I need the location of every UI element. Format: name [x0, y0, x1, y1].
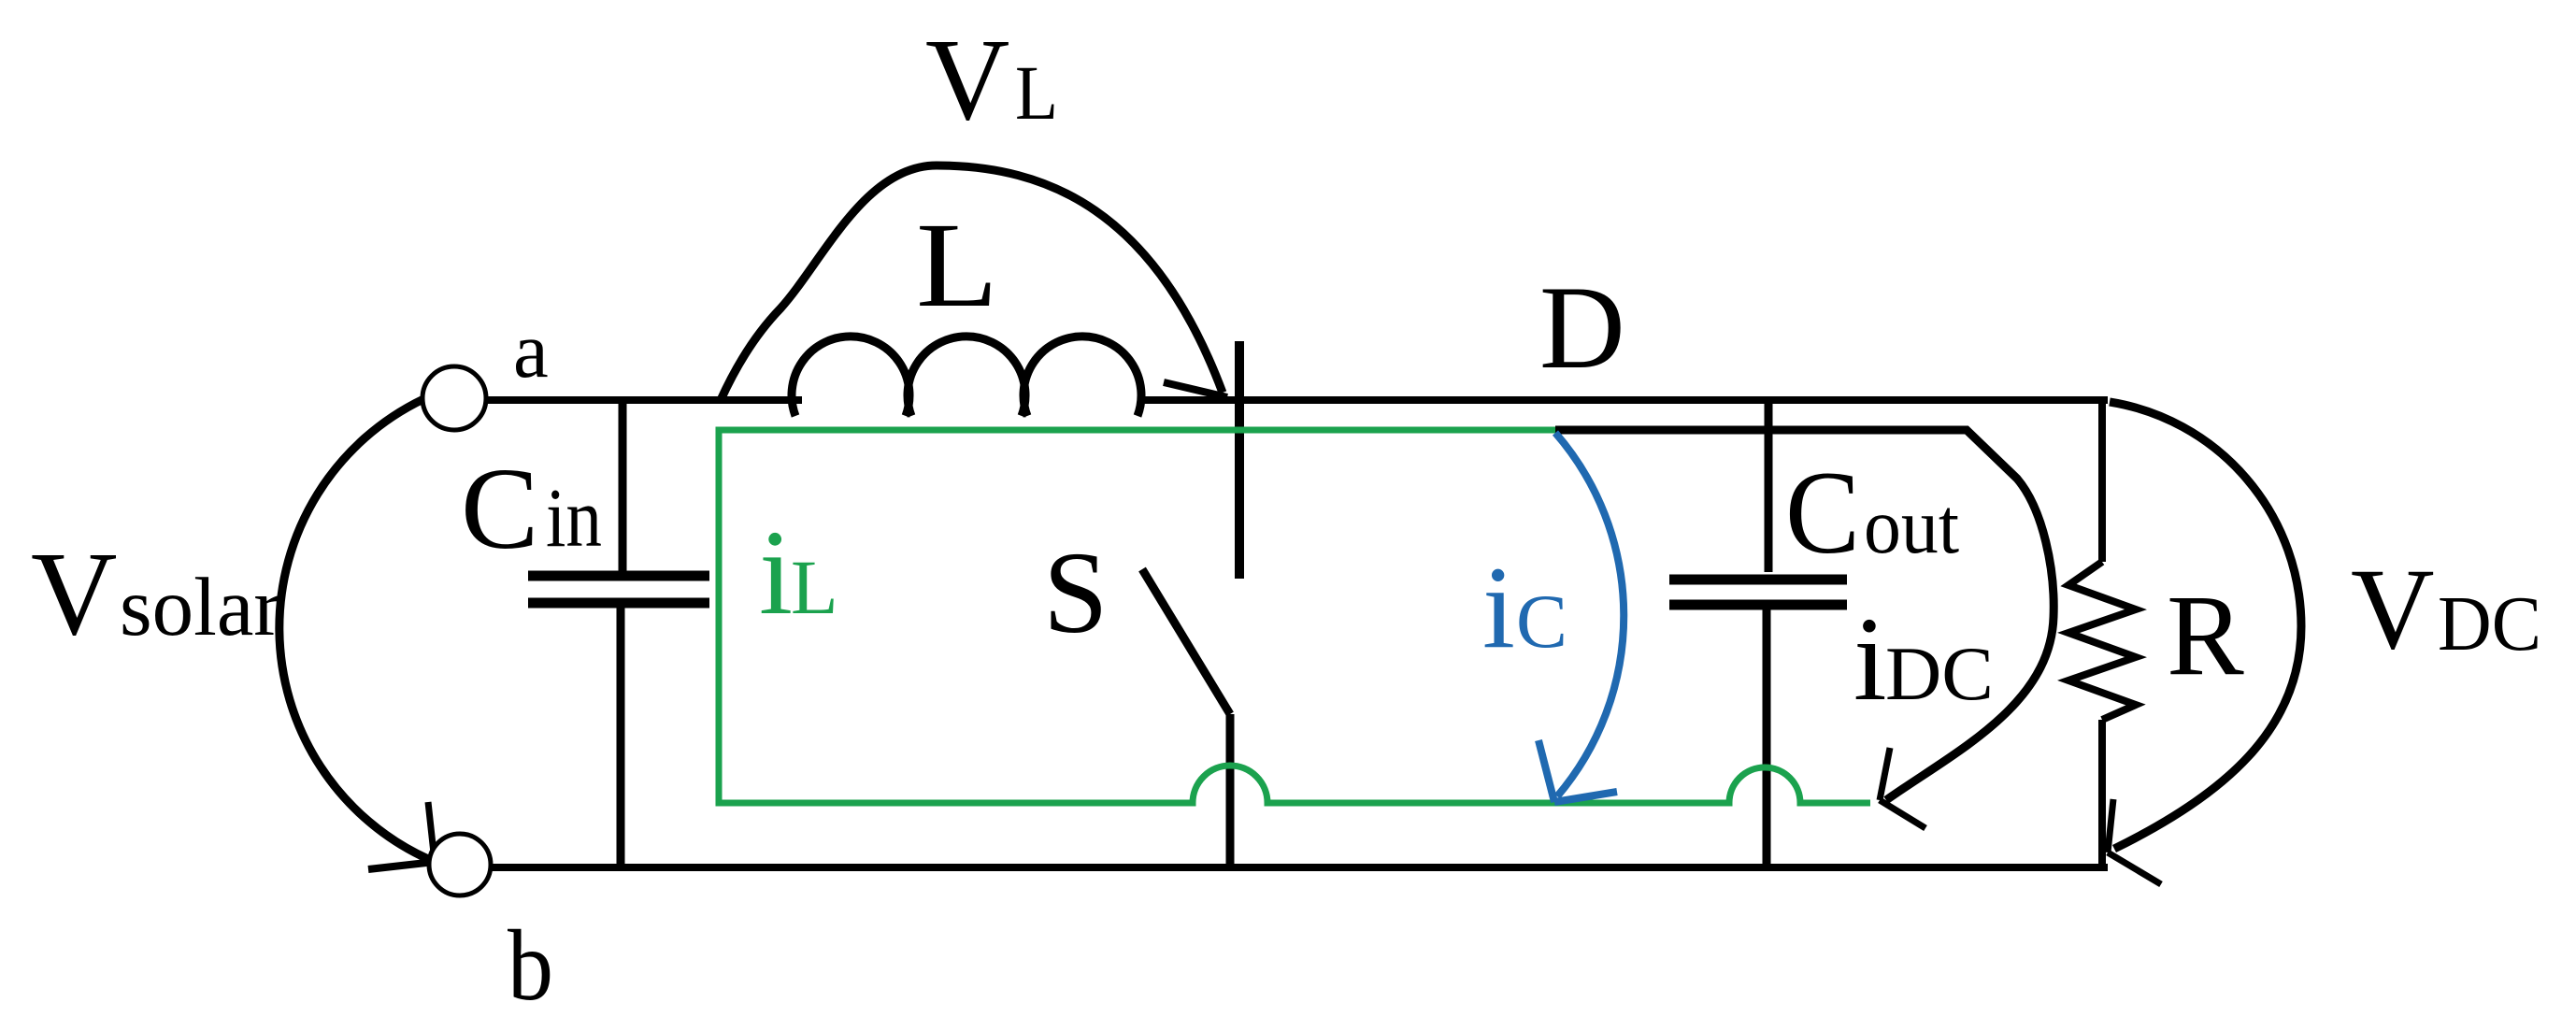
svg-text:b: b	[508, 910, 553, 1017]
svg-text:solar: solar	[120, 562, 281, 653]
svg-text:i: i	[1482, 543, 1515, 673]
svg-text:V: V	[31, 527, 117, 660]
svg-text:R: R	[2167, 571, 2244, 699]
svg-text:C: C	[461, 445, 538, 574]
svg-text:C: C	[1785, 448, 1860, 579]
svg-text:D: D	[1539, 263, 1625, 394]
svg-text:in: in	[546, 472, 602, 565]
svg-text:i: i	[1853, 593, 1887, 725]
svg-text:i: i	[759, 506, 793, 640]
svg-text:DC: DC	[1885, 631, 1994, 716]
svg-text:C: C	[1516, 579, 1567, 664]
svg-text:V: V	[925, 16, 1009, 145]
svg-text:S: S	[1043, 529, 1109, 658]
svg-text:a: a	[513, 307, 549, 394]
svg-text:L: L	[916, 198, 998, 333]
svg-text:L: L	[1015, 50, 1058, 136]
svg-text:V: V	[2351, 545, 2435, 673]
svg-text:out: out	[1864, 482, 1959, 570]
svg-text:L: L	[791, 544, 838, 630]
svg-text:DC: DC	[2438, 580, 2541, 667]
